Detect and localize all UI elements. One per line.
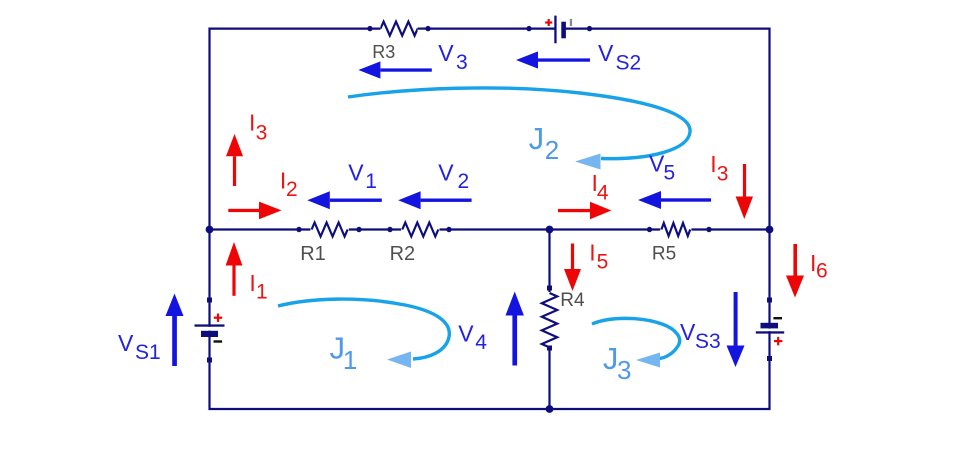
- resistor R2: [387, 223, 451, 237]
- battery VS3: [756, 298, 784, 362]
- svg-text:R5: R5: [652, 244, 676, 265]
- svg-text:I: I: [249, 110, 255, 136]
- arrow VS1: [166, 294, 184, 367]
- label I3 upper-left: [249, 110, 267, 145]
- arrow V2: [398, 191, 471, 209]
- junction node C right-middle: [766, 226, 774, 234]
- junction node D bottom: [546, 405, 554, 413]
- arrow I6: [786, 244, 804, 298]
- arrow VS2: [516, 51, 590, 68]
- label J3: [603, 341, 632, 385]
- svg-text:R2: R2: [390, 243, 416, 265]
- svg-text:S2: S2: [616, 51, 642, 74]
- resistor R1: [296, 223, 361, 237]
- svg-text:S3: S3: [695, 330, 721, 353]
- svg-text:1: 1: [365, 170, 377, 193]
- arrow I3 right: [736, 164, 753, 219]
- label V2: [438, 159, 469, 193]
- arrow I5: [564, 244, 581, 292]
- label V3: [438, 40, 467, 74]
- resistor R3: [364, 22, 431, 36]
- arrow I4: [558, 202, 611, 219]
- svg-text:2: 2: [286, 178, 298, 201]
- svg-text:4: 4: [597, 182, 609, 205]
- wire R4 branch: [548, 230, 550, 410]
- arrow V4: [506, 292, 524, 366]
- wire gap at VS3: [768, 329, 772, 332]
- wire gap at VS1: [208, 327, 212, 331]
- label I6: [810, 250, 828, 282]
- svg-text:V: V: [438, 40, 454, 66]
- svg-text:V: V: [438, 159, 454, 185]
- svg-text:I: I: [589, 240, 595, 266]
- arrow I2: [228, 202, 281, 220]
- arrow VS3: [727, 292, 745, 367]
- label VS2: [598, 40, 641, 74]
- svg-text:V: V: [598, 40, 614, 66]
- junction node B middle: [546, 226, 554, 234]
- svg-text:I: I: [710, 151, 716, 177]
- svg-text:2: 2: [545, 135, 559, 165]
- label V4: [458, 321, 487, 355]
- svg-text:V: V: [680, 319, 696, 345]
- svg-text:3: 3: [717, 162, 729, 185]
- wire middle horizontal: [210, 228, 770, 230]
- svg-text:R1: R1: [300, 243, 326, 265]
- arrow I1: [226, 242, 243, 296]
- label J1: [330, 331, 358, 376]
- svg-text:6: 6: [816, 259, 828, 282]
- svg-text:I: I: [249, 270, 255, 296]
- junction node A left-middle: [206, 226, 214, 234]
- svg-text:V: V: [458, 321, 474, 347]
- label I2: [280, 168, 298, 202]
- mesh arc J1: [278, 299, 449, 368]
- resistor R5: [647, 223, 712, 236]
- arrow V5: [638, 191, 711, 209]
- svg-text:4: 4: [475, 331, 487, 354]
- svg-text:1: 1: [343, 345, 357, 375]
- label V1: [348, 159, 377, 193]
- label I3 right: [710, 151, 728, 185]
- svg-text:V: V: [118, 330, 134, 356]
- svg-text:J: J: [529, 121, 545, 156]
- arrow I3 upper-left: [226, 134, 243, 186]
- mesh arc J3: [592, 318, 680, 367]
- label I1: [249, 270, 267, 304]
- battery VS2: [526, 16, 592, 44]
- svg-text:5: 5: [597, 251, 609, 274]
- battery VS1: [195, 298, 225, 363]
- resistor R4: [542, 286, 557, 351]
- label I4: [592, 170, 609, 205]
- svg-text:3: 3: [256, 122, 268, 145]
- wire outer loop: [210, 29, 770, 409]
- svg-text:3: 3: [456, 51, 468, 74]
- svg-text:1: 1: [256, 281, 268, 304]
- label V5: [649, 150, 675, 184]
- label J2: [529, 121, 560, 165]
- mesh arc J2: [348, 88, 690, 170]
- svg-text:2: 2: [458, 170, 470, 193]
- svg-text:R3: R3: [372, 42, 395, 62]
- svg-text:S1: S1: [135, 341, 161, 364]
- svg-text:5: 5: [664, 161, 676, 184]
- label VS1: [118, 330, 161, 364]
- arrow V3: [358, 61, 431, 78]
- wire gap at VS2: [556, 27, 561, 31]
- svg-text:V: V: [348, 159, 364, 185]
- label I5: [589, 240, 608, 274]
- arrow V1: [307, 191, 382, 209]
- label VS3: [680, 319, 721, 353]
- svg-text:R4: R4: [560, 290, 585, 311]
- svg-text:3: 3: [617, 355, 631, 385]
